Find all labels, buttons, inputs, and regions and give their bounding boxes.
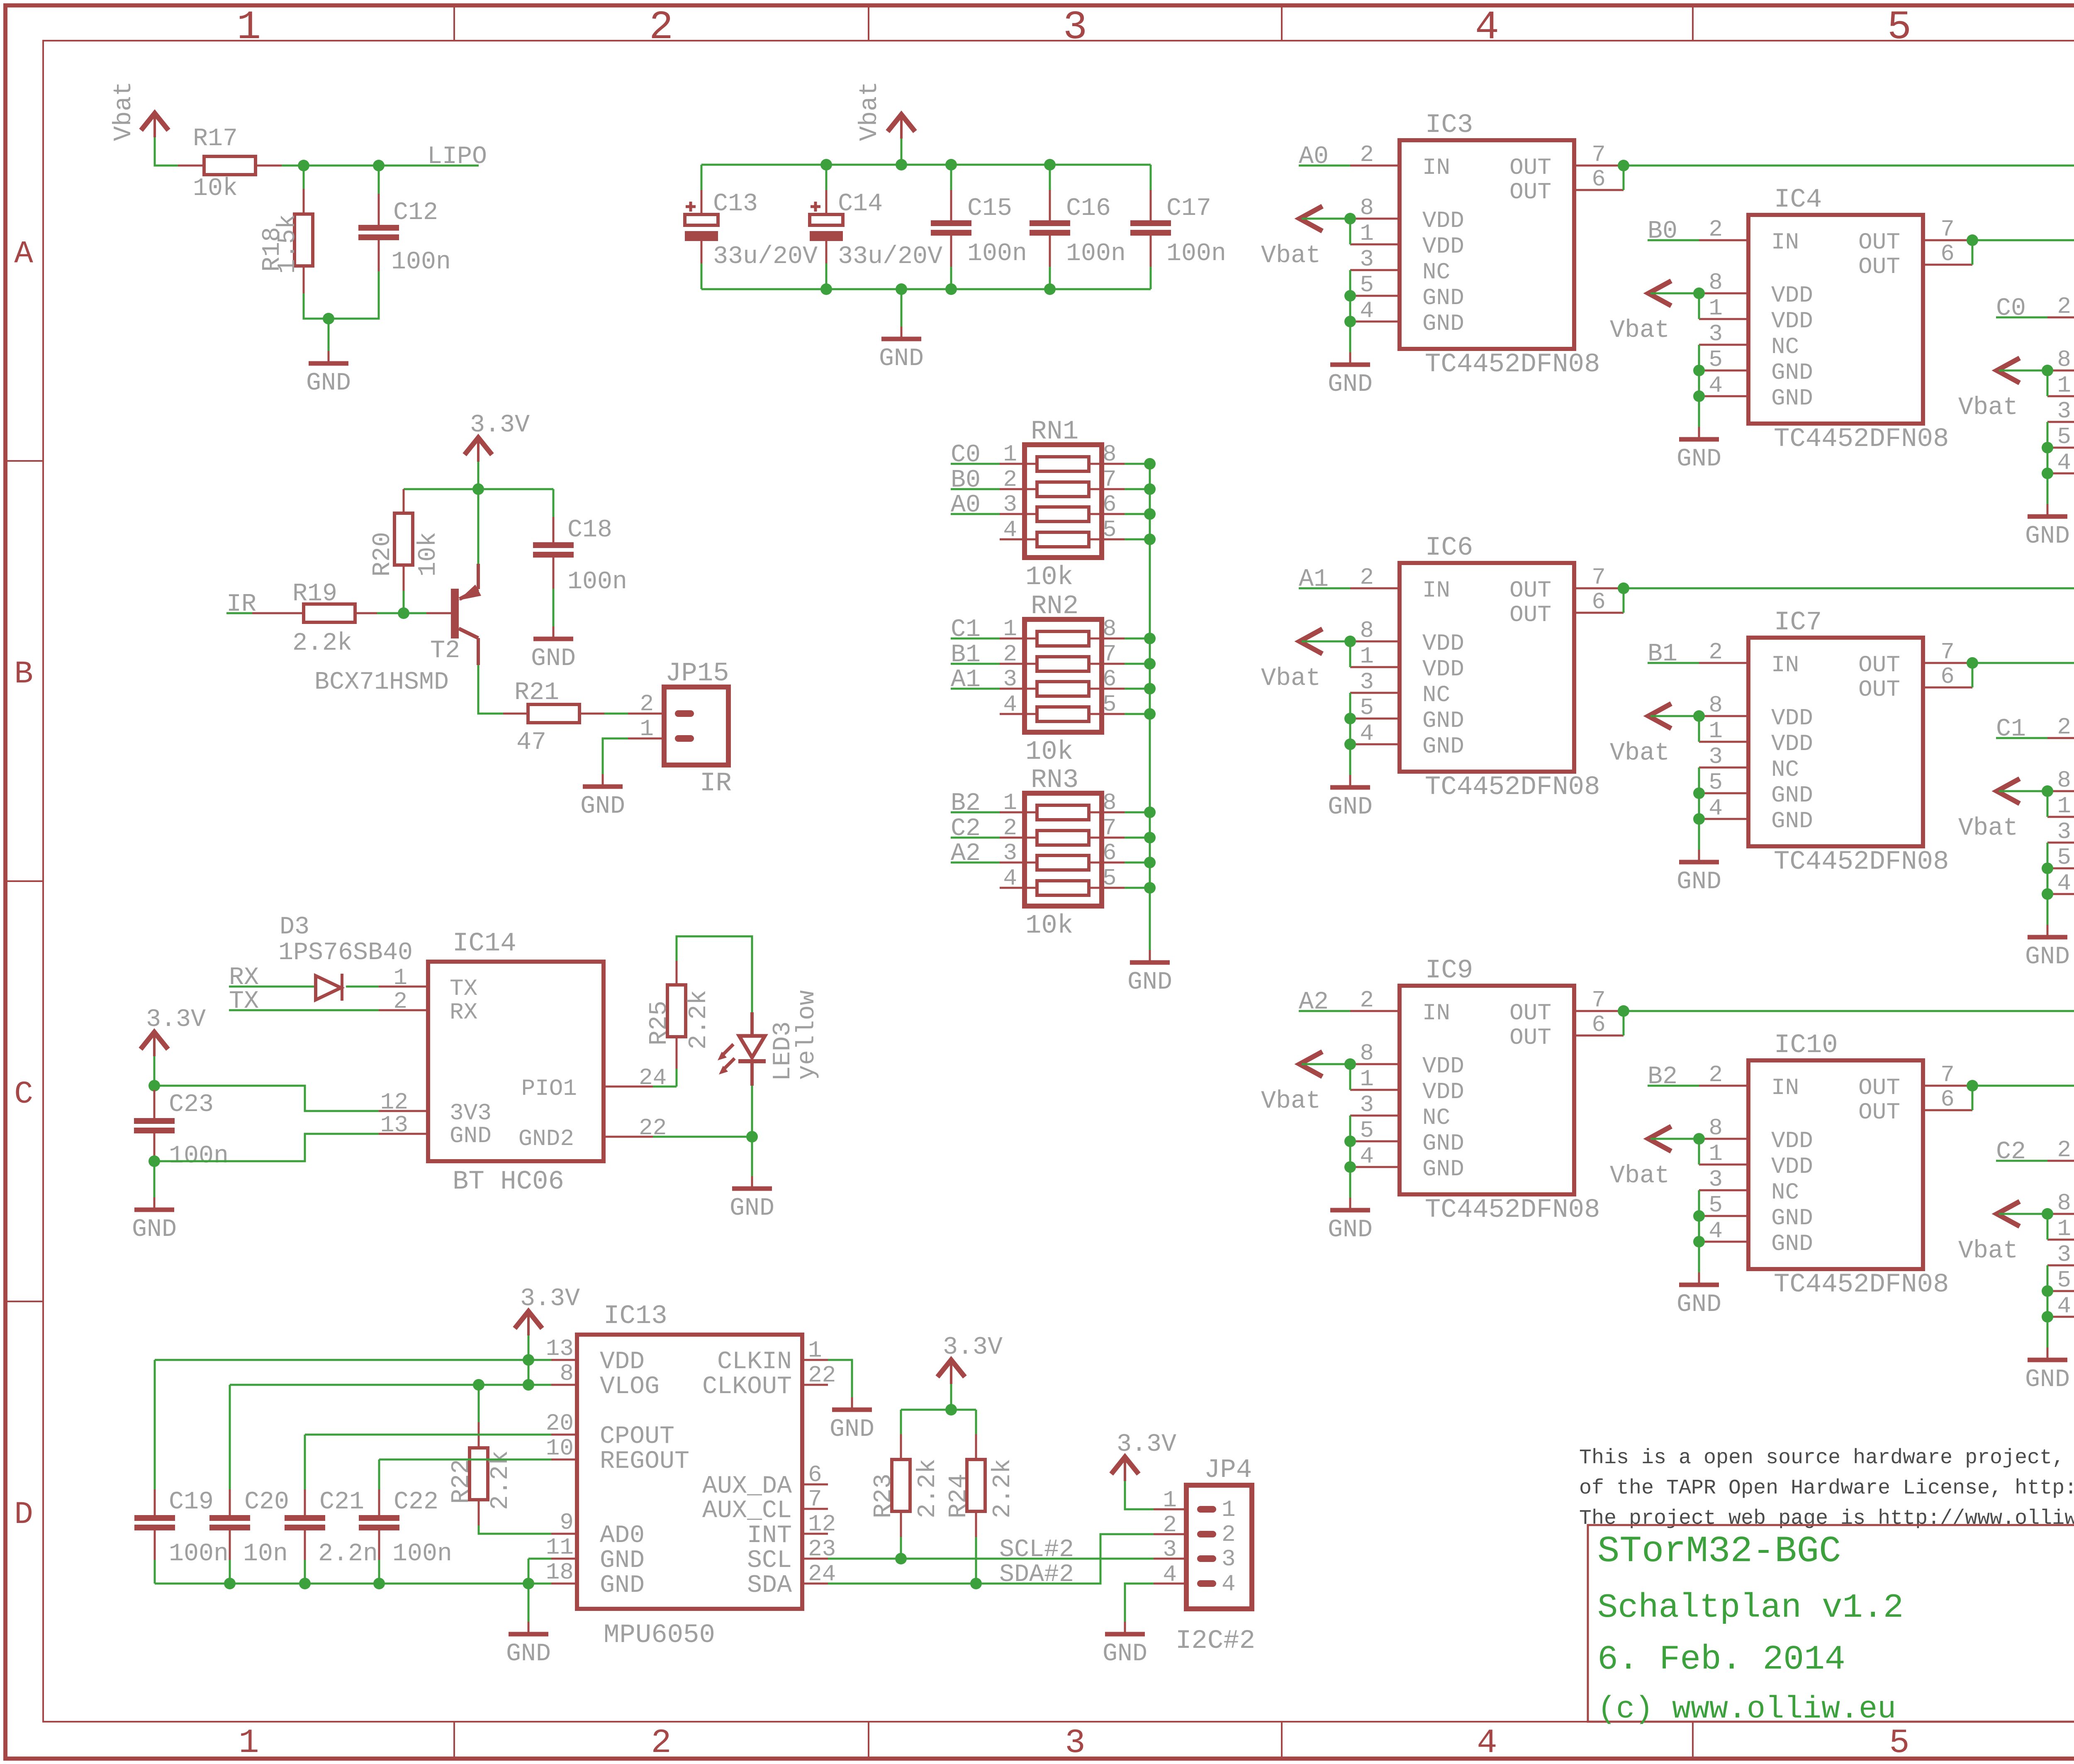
svg-text:1: 1 <box>2057 793 2071 819</box>
svg-text:1: 1 <box>239 1724 259 1762</box>
svg-text:3: 3 <box>1063 5 1087 51</box>
svg-text:GND: GND <box>580 792 625 821</box>
pin stub 5 (IC4) <box>1699 370 1748 372</box>
svg-text:C13: C13 <box>713 190 758 218</box>
wire 3.3V to rail <box>477 462 480 489</box>
resistor R19 <box>252 612 304 614</box>
svg-text:VDD: VDD <box>1422 630 1464 657</box>
svg-text:OUT: OUT <box>1509 602 1551 628</box>
wire Vbat to pin 8 (IC11) <box>1999 1213 2047 1215</box>
svg-text:5: 5 <box>2057 1267 2071 1294</box>
svg-text:CPOUT: CPOUT <box>600 1423 674 1451</box>
node junction pin 8 (IC7) <box>1693 710 1705 722</box>
wire A1 to RN2 <box>951 688 1000 690</box>
node junction pin 4 (IC3) <box>1344 316 1356 327</box>
wire B2 to RN3 <box>951 811 1000 814</box>
svg-text:3: 3 <box>1360 1092 1374 1118</box>
svg-text:5: 5 <box>1709 769 1723 796</box>
svg-text:AUX_CL: AUX_CL <box>702 1497 792 1525</box>
svg-text:6: 6 <box>1592 589 1606 615</box>
svg-text:6: 6 <box>1592 1011 1606 1038</box>
node junction pin 5 (IC4) <box>1693 365 1705 376</box>
wire RN1 pin 6 to bus <box>1125 513 1150 515</box>
pin stub 1 (RN3) <box>1000 811 1037 814</box>
wire R24 to SDA <box>975 1537 977 1584</box>
pin stub 8 (RN1) <box>1089 463 1125 465</box>
svg-text:2: 2 <box>640 691 654 717</box>
svg-text:12: 12 <box>808 1511 836 1537</box>
capacitor C17 <box>1150 165 1152 190</box>
svg-text:3: 3 <box>2057 398 2071 424</box>
svg-text:The project web page is http:/: The project web page is http://www.olliw… <box>1579 1507 2074 1530</box>
title block frame <box>1588 1525 2074 1722</box>
pin stub 6 (IC10) <box>1923 1109 1972 1111</box>
svg-text:5: 5 <box>1360 694 1374 721</box>
ground symbol GND (C23) <box>153 1197 156 1210</box>
capacitor C12 <box>378 166 380 194</box>
wire VDD rail (C19 to pin 13) <box>155 1359 551 1361</box>
svg-text:B: B <box>14 656 33 692</box>
svg-text:A1: A1 <box>1299 565 1329 594</box>
svg-text:5: 5 <box>1887 5 1911 51</box>
pin stub 8 (IC10) <box>1699 1138 1748 1140</box>
wire R19 to T2 base <box>377 612 426 614</box>
capacitor C18 <box>553 489 555 517</box>
wire pin 8 to pin 1 (IC11) <box>2047 1214 2049 1240</box>
node junction pin 5 (IC10) <box>1693 1210 1705 1222</box>
svg-text:TX: TX <box>450 975 477 1002</box>
wire to ground <box>328 319 330 351</box>
svg-text:NC: NC <box>1422 259 1450 285</box>
svg-text:10n: 10n <box>243 1540 288 1568</box>
node junction OUT (IC7) <box>1967 657 1978 669</box>
svg-text:GND: GND <box>2025 522 2070 551</box>
svg-text:GND: GND <box>531 645 576 673</box>
svg-text:4: 4 <box>1360 1143 1374 1170</box>
svg-text:NC: NC <box>1771 1179 1799 1206</box>
supply symbol Vbat (IC7) <box>1648 704 1671 729</box>
node junction R23/SCL <box>895 1553 907 1564</box>
resistor network RN2 <box>1025 619 1102 732</box>
svg-text:SDA#2: SDA#2 <box>999 1561 1074 1589</box>
svg-text:A0: A0 <box>1299 143 1329 171</box>
wire R20 to base node <box>403 591 405 613</box>
svg-text:IN: IN <box>1771 652 1799 678</box>
svg-text:GND: GND <box>132 1216 177 1244</box>
wire A1 driver OUT to MOT1 pin 1 <box>1624 588 2074 638</box>
svg-text:RX: RX <box>450 999 477 1026</box>
ground symbol GND (IC9) <box>1349 1198 1351 1210</box>
pin stub 8 (IC13) <box>551 1384 577 1386</box>
node junction bus (RN1 pin 5) <box>1144 534 1156 545</box>
wire 3.3V to R23/R24 rail <box>950 1384 952 1410</box>
wire top rail C13..C17 <box>701 164 1151 166</box>
svg-text:33u/20V: 33u/20V <box>713 243 818 271</box>
svg-text:VDD: VDD <box>1771 705 1813 731</box>
svg-text:C18: C18 <box>567 516 612 544</box>
node junction pin 5 (IC5) <box>2042 442 2053 453</box>
wire OUT tie (IC7) <box>1972 663 1974 687</box>
supply symbol Vbat (IC3) <box>1300 206 1322 231</box>
wire B0 driver OUT to MOT0 pin 2 <box>1972 239 2074 241</box>
wire Vbat to pin 8 (IC6) <box>1302 641 1350 643</box>
node junction pin 4 (IC7) <box>1693 813 1705 825</box>
node junction C23 top <box>148 1080 160 1092</box>
svg-text:OUT: OUT <box>1858 1074 1900 1101</box>
wire A2 to IC9 IN <box>1299 1010 1350 1012</box>
pin stub 4 (IC5) <box>2047 473 2074 475</box>
svg-text:OUT: OUT <box>1509 179 1551 205</box>
ground symbol GND (LED3) <box>751 1176 753 1189</box>
node junction pin 4 (IC10) <box>1693 1236 1705 1247</box>
connector JP15 pin stub 2 <box>628 713 664 715</box>
pin stub 3 (IC6) <box>1350 692 1400 694</box>
svg-text:10k: 10k <box>1025 737 1073 767</box>
resistor RN3 element 2 <box>1037 831 1089 845</box>
wire R25 top to LED3 anode <box>677 936 752 1012</box>
wire CLKIN to ground <box>828 1360 852 1397</box>
pin stub 18 (IC13) <box>551 1583 577 1585</box>
svg-text:4: 4 <box>1360 297 1374 324</box>
wire T2 emitter to 3.3V rail <box>477 489 480 564</box>
svg-text:3: 3 <box>1003 491 1017 518</box>
svg-text:C19: C19 <box>169 1488 214 1516</box>
svg-text:8: 8 <box>1709 1115 1723 1141</box>
wire Vbat to pin 8 (IC8) <box>1999 790 2047 792</box>
svg-text:5: 5 <box>2057 844 2071 871</box>
svg-text:Vbat: Vbat <box>1261 665 1321 693</box>
ground symbol GND (IC3) <box>1349 352 1351 365</box>
wire pin 8 to pin 1 (IC10) <box>1698 1139 1700 1165</box>
svg-text:GND: GND <box>1771 385 1813 412</box>
svg-text:1: 1 <box>1360 643 1374 670</box>
svg-text:B2: B2 <box>1648 1063 1677 1091</box>
pin stub 10 (IC13) <box>551 1459 577 1461</box>
svg-text:13: 13 <box>380 1112 408 1138</box>
pin stub 4 (RN2) <box>1000 713 1037 715</box>
wire SDA#2 (IC13 pin 24 to JP4 pin 2) <box>828 1534 1154 1584</box>
pin stub 12 (IC14) <box>379 1110 428 1112</box>
svg-text:IC9: IC9 <box>1425 956 1473 986</box>
svg-text:C0: C0 <box>951 441 981 469</box>
pin stub 4 (JP4) <box>1154 1583 1186 1585</box>
supply symbol Vbat (IC10) <box>1648 1126 1671 1151</box>
wire 3.3V to VDD rail <box>528 1335 530 1360</box>
resistor network RN1 <box>1025 445 1102 558</box>
resistor RN3 element 4 <box>1037 881 1089 895</box>
svg-text:7: 7 <box>1940 216 1955 243</box>
svg-text:2: 2 <box>2057 1137 2071 1163</box>
svg-text:GND: GND <box>1422 1130 1464 1157</box>
svg-text:IC14: IC14 <box>453 929 516 959</box>
resistor RN1 element 2 <box>1037 482 1089 497</box>
pin stub 7 (IC10) <box>1923 1085 1972 1087</box>
svg-text:CLKOUT: CLKOUT <box>702 1373 792 1401</box>
pin stub 2 (IC9) <box>1350 1010 1400 1012</box>
wire Vbat to pin 8 (IC3) <box>1302 218 1350 220</box>
svg-text:2: 2 <box>1003 466 1017 493</box>
node junction pin 5 (IC9) <box>1344 1135 1356 1147</box>
pin stub 6 (IC13) <box>802 1484 828 1486</box>
pin stub 13 (IC13) <box>551 1359 577 1361</box>
svg-text:GND: GND <box>1328 370 1373 399</box>
svg-text:3: 3 <box>1360 669 1374 695</box>
svg-text:SDA: SDA <box>747 1572 792 1600</box>
node junction pin 5 (IC6) <box>1344 713 1356 724</box>
pin stub 3 (IC5) <box>2047 421 2074 423</box>
pin stub 7 (IC9) <box>1574 1010 1624 1012</box>
svg-text:D3: D3 <box>280 913 309 941</box>
svg-text:3: 3 <box>2057 819 2071 845</box>
svg-text:100n: 100n <box>567 568 627 596</box>
svg-text:2: 2 <box>1163 1512 1177 1538</box>
pin stub 6 (RN1) <box>1089 513 1125 515</box>
wire B1 to IC7 IN <box>1648 662 1699 664</box>
resistor RN2 element 4 <box>1037 707 1089 721</box>
svg-text:C0: C0 <box>1996 295 2026 323</box>
svg-text:VDD: VDD <box>1771 1153 1813 1180</box>
svg-text:TC4452DFN08: TC4452DFN08 <box>1425 1195 1600 1225</box>
resistor network RN3 <box>1025 793 1102 906</box>
svg-text:GND: GND <box>1422 733 1464 760</box>
wire IR to R19 <box>226 612 252 614</box>
pin stub 7 (IC3) <box>1574 165 1624 167</box>
svg-text:LIPO: LIPO <box>427 143 487 171</box>
svg-text:1: 1 <box>1222 1496 1236 1523</box>
svg-text:5: 5 <box>1103 517 1117 543</box>
svg-text:GND2: GND2 <box>518 1126 574 1152</box>
node junction OUT (IC9) <box>1618 1005 1629 1017</box>
svg-text:VDD: VDD <box>600 1348 645 1376</box>
svg-text:NC: NC <box>1771 334 1799 360</box>
svg-text:1: 1 <box>393 965 407 991</box>
transistor T2 pin stub base <box>426 612 452 614</box>
wire pin 8 to pin 1 (IC6) <box>1349 641 1351 667</box>
pin stub 5 (IC5) <box>2047 447 2074 449</box>
pin stub 7 (RN1) <box>1089 488 1125 490</box>
wire rail to ground <box>901 289 903 326</box>
node junction R17/R18 <box>298 160 309 171</box>
svg-text:1: 1 <box>640 716 654 742</box>
wire A2 driver OUT to MOT2 pin 1 <box>1624 1011 2074 1061</box>
svg-text:1: 1 <box>2057 1216 2071 1242</box>
frame row ticks left <box>7 460 43 462</box>
node junction bus (RN2 pin 5) <box>1144 708 1156 720</box>
ground symbol GND (cap rail) <box>901 326 903 339</box>
node junction pin 8 (IC8) <box>2042 785 2053 797</box>
frame column ticks bottom <box>453 1722 455 1758</box>
wire pins 3/5/4 to ground (IC11) <box>2047 1265 2049 1348</box>
wire C1 to RN2 <box>951 638 1000 640</box>
node junction pin 5 (IC8) <box>2042 863 2053 874</box>
pin stub 24 (IC14) <box>604 1086 653 1088</box>
pin stub 3 (IC7) <box>1699 767 1748 769</box>
svg-text:1PS76SB40: 1PS76SB40 <box>278 939 413 967</box>
pin stub 5 (IC7) <box>1699 792 1748 794</box>
svg-text:3: 3 <box>1709 1166 1723 1193</box>
node junction OUT (IC10) <box>1967 1080 1978 1092</box>
svg-text:TC4452DFN08: TC4452DFN08 <box>1425 350 1600 380</box>
svg-text:8: 8 <box>1360 617 1374 644</box>
svg-text:3: 3 <box>1065 1724 1085 1762</box>
wire RN2 pin 6 to bus <box>1125 688 1150 690</box>
IC U IC14 BT HC06 <box>428 962 604 1161</box>
wire Vbat to pin 8 (IC4) <box>1650 292 1699 295</box>
node junction bus (RN2 pin 8) <box>1144 633 1156 644</box>
svg-text:4: 4 <box>1360 720 1374 747</box>
wire rail R23..R24 <box>901 1409 976 1411</box>
svg-text:JP4: JP4 <box>1204 1455 1252 1485</box>
svg-text:6: 6 <box>1103 840 1117 866</box>
wire B1 driver OUT to MOT1 pin 2 <box>1972 662 2074 664</box>
wire IC14 pin 24 to R25 <box>653 1086 677 1088</box>
svg-text:Vbat: Vbat <box>856 81 884 141</box>
svg-text:Vbat: Vbat <box>1261 1087 1321 1116</box>
svg-text:4: 4 <box>1475 5 1499 51</box>
svg-text:4: 4 <box>1003 691 1017 718</box>
svg-text:GND: GND <box>1127 968 1172 997</box>
pin stub 4 (IC9) <box>1350 1166 1400 1168</box>
wire pins 3/5/4 to ground (IC6) <box>1349 693 1351 775</box>
svg-text:GND: GND <box>450 1123 492 1149</box>
pin stub 6 (IC7) <box>1923 687 1972 689</box>
resistor RN2 element 3 <box>1037 682 1089 696</box>
node junction VDD/3.3V <box>523 1354 534 1366</box>
svg-text:C1: C1 <box>951 616 981 644</box>
svg-text:GND: GND <box>1771 782 1813 809</box>
svg-text:7: 7 <box>1592 141 1606 168</box>
pin stub 5 (RN1) <box>1089 538 1125 541</box>
svg-text:OUT: OUT <box>1509 1024 1551 1051</box>
resistor RN2 element 1 <box>1037 631 1089 646</box>
supply symbol Vbat (IC6) <box>1300 629 1322 654</box>
node junction bus (RN3 pin 8) <box>1144 806 1156 818</box>
svg-text:RN3: RN3 <box>1031 765 1078 795</box>
pin stub 7 (RN2) <box>1089 663 1125 665</box>
resistor R24 <box>975 1410 977 1434</box>
svg-text:STorM32-BGC: STorM32-BGC <box>1597 1530 1841 1572</box>
svg-text:100n: 100n <box>1066 240 1126 268</box>
pin stub 8 (RN2) <box>1089 638 1125 640</box>
svg-text:A2: A2 <box>1299 988 1329 1016</box>
capacitor C19 <box>154 1360 156 1489</box>
svg-text:JP15: JP15 <box>665 659 729 689</box>
capacitor C16 <box>1049 165 1051 190</box>
wire RN2 pin 8 to bus <box>1125 638 1150 640</box>
node junction OUT (IC6) <box>1618 582 1629 594</box>
node junction base/R20 <box>398 607 409 619</box>
svg-text:MPU6050: MPU6050 <box>604 1620 715 1650</box>
wire RN pull-down bus <box>1149 464 1151 950</box>
pin stub 5 (RN2) <box>1089 713 1125 715</box>
node junction pin 4 (IC5) <box>2042 468 2053 479</box>
svg-text:C17: C17 <box>1166 195 1211 223</box>
wire C2 to IC11 IN <box>1996 1160 2047 1162</box>
svg-text:GND: GND <box>2025 943 2070 971</box>
pin stub 1 (IC8) <box>2047 816 2074 818</box>
svg-text:2: 2 <box>1360 564 1374 591</box>
svg-text:GND: GND <box>506 1640 551 1668</box>
svg-text:2.2k: 2.2k <box>989 1459 1017 1518</box>
svg-text:OUT: OUT <box>1858 253 1900 280</box>
svg-text:8: 8 <box>1103 789 1117 816</box>
svg-text:IC7: IC7 <box>1774 608 1822 638</box>
svg-text:2.2k: 2.2k <box>685 990 713 1050</box>
wire VDD to VLOG tie <box>528 1360 530 1385</box>
pin stub 1 (IC11) <box>2047 1239 2074 1241</box>
svg-text:4: 4 <box>1163 1561 1177 1588</box>
supply symbol Vbat (IC4) <box>1648 281 1671 306</box>
wire R23 to SCL <box>900 1537 902 1559</box>
svg-text:IN: IN <box>1771 1074 1799 1101</box>
svg-text:Vbat: Vbat <box>1610 317 1670 345</box>
svg-text:C1: C1 <box>1996 715 2026 743</box>
svg-text:OUT: OUT <box>1509 154 1551 181</box>
wire RN2 pin 5 to bus <box>1125 713 1150 715</box>
svg-text:2: 2 <box>1709 1062 1723 1088</box>
svg-text:R21: R21 <box>514 679 559 707</box>
node junction bus (RN2 pin 6) <box>1144 683 1156 694</box>
svg-text:2: 2 <box>1709 639 1723 665</box>
svg-text:SCL: SCL <box>747 1547 792 1575</box>
pin stub 8 (IC6) <box>1350 641 1400 643</box>
pin stub 8 (IC7) <box>1699 715 1748 717</box>
svg-text:6: 6 <box>1940 241 1955 267</box>
wire TX to IC14 pin 2 <box>229 1009 379 1011</box>
svg-text:4: 4 <box>1003 517 1017 543</box>
svg-text:VDD: VDD <box>1422 207 1464 234</box>
svg-text:GND: GND <box>1422 310 1464 337</box>
ground symbol GND (IC7) <box>1698 850 1700 862</box>
svg-text:RN1: RN1 <box>1031 417 1078 447</box>
wire C0 to RN1 <box>951 463 1000 465</box>
svg-text:9: 9 <box>560 1509 574 1536</box>
wire pin 8 to pin 1 (IC5) <box>2047 370 2049 396</box>
pin stub 2 (IC14) <box>379 1009 428 1011</box>
svg-text:1: 1 <box>1709 1140 1723 1167</box>
svg-text:2: 2 <box>1003 815 1017 841</box>
pin stub 1 (IC10) <box>1699 1164 1748 1166</box>
svg-text:B1: B1 <box>1648 640 1677 668</box>
wire C21 to CPOUT (pin 20) <box>305 1434 551 1436</box>
node junction bus (RN1 pin 8) <box>1144 458 1156 470</box>
pin stub 24 (IC13) <box>802 1583 828 1585</box>
wire RN3 pin 8 to bus <box>1125 811 1150 814</box>
svg-text:1: 1 <box>1163 1487 1177 1513</box>
node junctions ground bus <box>224 1578 236 1589</box>
svg-text:R19: R19 <box>292 580 337 608</box>
pin stub 1 (RN1) <box>1000 463 1037 465</box>
node junction pin 8 (IC11) <box>2042 1208 2053 1220</box>
wire pin 8 to pin 1 (IC4) <box>1698 293 1700 319</box>
svg-text:1: 1 <box>808 1337 822 1364</box>
pin stub 3 (IC4) <box>1699 344 1748 346</box>
wire OUT tie (IC3) <box>1623 166 1625 190</box>
svg-text:VDD: VDD <box>1771 308 1813 334</box>
svg-text:2: 2 <box>2057 714 2071 741</box>
node junction pin 8 (IC4) <box>1693 288 1705 299</box>
pin stub 6 (RN3) <box>1089 862 1125 864</box>
svg-text:4: 4 <box>1709 795 1723 821</box>
svg-text:B2: B2 <box>951 789 981 818</box>
svg-text:GND: GND <box>306 369 351 397</box>
node junction bus (RN1 pin 7) <box>1144 483 1156 495</box>
pin stub 8 (IC8) <box>2047 790 2074 792</box>
wire SCL#2 (IC13 pin 23 to JP4 pin 3) <box>828 1558 1154 1560</box>
wire pin 11 to ground bus <box>528 1558 551 1560</box>
svg-text:C: C <box>14 1077 33 1112</box>
ground symbol GND (IC4) <box>1698 427 1700 439</box>
